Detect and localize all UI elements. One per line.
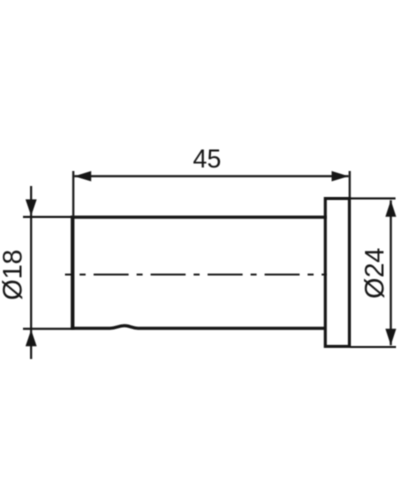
centerline (dash-dot axis) [65, 274, 327, 276]
dimension Ø18: bottom arrowhead (outside, pointing up) [26, 330, 37, 347]
svg-text:45: 45 [193, 146, 221, 174]
part outline: cylinder body top edge [71, 216, 327, 219]
dimension Ø24: bottom arrowhead (inside, pointing down) [385, 329, 396, 346]
svg-text:Ø18: Ø18 [0, 249, 27, 300]
dimension Ø24: extension line top [350, 197, 396, 199]
dimension 45: right arrowhead [332, 171, 349, 181]
svg-text:Ø24: Ø24 [359, 248, 389, 299]
dimension Ø18: top arrowhead (outside, pointing down) [26, 199, 37, 216]
dimension 45: left arrowhead [74, 171, 91, 181]
dimension Ø18: dimension line [30, 186, 32, 359]
dimension 45: extension line right [349, 171, 351, 198]
dimension Ø24: top arrowhead (inside, pointing up) [385, 200, 396, 217]
dimension Ø24: dimension line [390, 200, 392, 345]
dimension 45: dimension line [74, 175, 348, 177]
dimension Ø24: extension line bottom [350, 346, 396, 348]
part outline: flange rectangle [325, 199, 349, 347]
part outline: cylinder body bottom edge (with slight scan bump) [71, 326, 326, 329]
part outline: cylinder body left edge [71, 216, 75, 330]
dimension Ø18: extension line top [23, 216, 71, 218]
dimension Ø18: extension line bottom [23, 328, 71, 330]
dimension 45: extension line left [72, 171, 74, 216]
